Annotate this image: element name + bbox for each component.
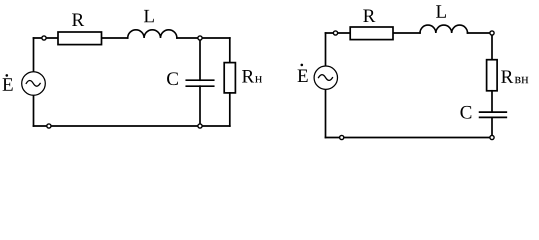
wire: right circuit top side, source to resistor [326,32,351,34]
value label R (right resistor) [363,10,375,22]
wire: right circuit left side [325,33,327,138]
value label R (left resistor) [72,14,84,26]
resistor R (left circuit) [58,32,102,45]
wire: right circuit bottom side [326,137,493,139]
wire: right circuit top side, inductor to right corner [468,32,493,34]
wire: left circuit left side [33,38,35,126]
wire: left circuit top side, source to resistor [34,37,59,39]
inductor L (right circuit) [420,25,468,33]
value label L (left inductor) [144,10,154,22]
resistor R (right circuit) [350,27,393,40]
capacitor C (right circuit) [480,112,507,117]
wire: capacitor branch lower (left circuit) [199,86,201,126]
wire: left circuit top side, inductor to node A [177,37,200,39]
wire: left circuit top side, resistor to inductor [102,37,128,39]
value label L (right inductor) [436,5,446,17]
wire: Rn branch upper (left circuit) [229,38,231,63]
inductor L (left circuit) [128,30,177,38]
terminal: left circuit top input [42,36,46,40]
label E (right source EMF) [298,64,308,82]
wire: left circuit top side, node A to right corner [200,37,230,39]
terminal: right circuit top input [333,31,337,35]
wire: right branch upper, corner to Rvn (right circuit) [491,33,493,60]
node B: bottom junction of C branch (left circuit) [198,124,202,128]
node A: top junction of C branch (left circuit) [198,36,202,40]
wire: capacitor to bottom wire (right circuit) [491,117,493,137]
node D: bottom-right corner node (right circuit) [490,135,494,139]
wire: Rn branch lower (left circuit) [229,93,231,126]
terminal: right circuit bottom input [340,135,344,139]
wire: capacitor branch upper (left circuit) [199,38,201,80]
label E (left source EMF) [3,74,13,91]
AC source E (left circuit) [22,72,46,96]
value label C (left capacitor) [167,72,178,85]
node C: top-right corner node (right circuit) [490,31,494,35]
value label Rvn (right internal resistance) [501,70,528,83]
wire: left circuit bottom side [34,125,230,127]
value label C (right capacitor) [460,106,471,119]
value label Rn (left load resistor) [242,70,262,82]
wire: Rvn to capacitor (right circuit) [491,91,493,112]
resistor Rn (left circuit load) [224,63,235,93]
wire: right circuit top side, resistor to inductor [393,32,420,34]
capacitor C (left circuit) [186,80,213,86]
AC source E (right circuit) [314,66,337,89]
terminal: left circuit bottom input [47,124,51,128]
resistor Rvn (right circuit internal load) [487,60,498,91]
